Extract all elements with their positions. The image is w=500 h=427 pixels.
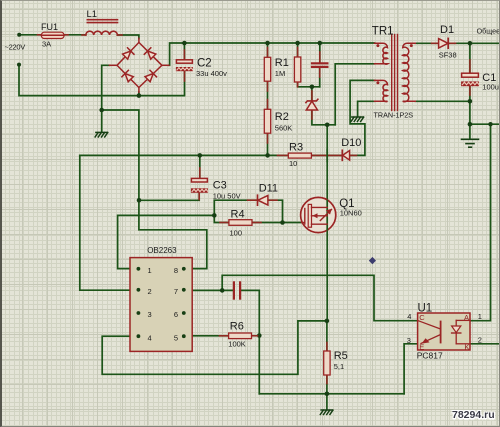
junction gate node B — [280, 220, 285, 225]
capacitor C3 electrolytic — [191, 178, 208, 192]
resistor R1 — [264, 57, 270, 81]
origin marker diamond — [369, 257, 376, 264]
wire: bottom gnd line — [259, 393, 404, 395]
ground symbol at TR1 aux winding — [351, 117, 364, 122]
junction source / R5 top — [325, 319, 330, 324]
wire: pin7 node up and right to opto riser — [222, 275, 417, 320]
wire: snubber cap bottom to clamp node — [319, 68, 321, 86]
junction bridge left gnd node — [99, 108, 104, 113]
wire: C3 top to VCC rail — [199, 155, 201, 178]
wire: chip pin 7 to feedback cap — [184, 289, 233, 291]
wire: chip pin 5 to R6 — [184, 335, 229, 337]
feedback capacitor at pin 7 — [234, 282, 240, 298]
junction pin7 / feedback cap — [220, 288, 225, 293]
junction bridge bottom / AC2 — [137, 93, 142, 98]
wire: output rail to C1 top — [469, 43, 471, 73]
capacitor C1 electrolytic — [461, 73, 479, 86]
wire: secondary top to D1 anode — [415, 42, 438, 44]
junction secondary bottom / C1 — [468, 99, 473, 104]
junction common node — [468, 122, 473, 127]
junction R6 right — [257, 333, 262, 338]
snubber capacitor — [312, 63, 327, 67]
wire: R5 bottom to bottom gnd line — [326, 375, 328, 394]
wire: source node to R5 top — [326, 321, 328, 351]
wire: node A up to D11 cathode — [214, 200, 256, 215]
wire: chip pin 1 to gate network node A — [118, 215, 215, 268]
wire: secondary bottom to C1 bottom node — [415, 100, 470, 102]
wire: zener bottom to drain node — [312, 110, 335, 125]
wire: R5 gnd stub to ground symbol — [326, 394, 328, 410]
wire: D11 anode to gate node B — [268, 200, 283, 222]
wire: C1 node down to common node — [469, 101, 471, 124]
wire: common node to output ground — [469, 124, 471, 138]
wire: bridge bottom vertex to AC2 line — [138, 92, 140, 96]
wire: R3 right to D10 cathode — [311, 154, 341, 156]
resistor R2 — [264, 109, 270, 133]
wire: C2 top plate to rail — [183, 43, 185, 60]
ground symbol at bridge DC- — [95, 132, 108, 137]
wire: common node to right edge — [470, 123, 500, 125]
wire: drain line over R3 pin crossing — [326, 150, 328, 162]
fuse FU1 — [41, 32, 64, 38]
wire: gate node B to Q1 gate — [283, 222, 302, 224]
wire: opto pin A to output common riser — [470, 124, 491, 321]
wire: C3 bottom to gnd rail left — [139, 193, 199, 201]
wire: clamp node to zener top — [311, 87, 313, 100]
junction drain node — [325, 123, 330, 128]
resistor R5 — [324, 351, 330, 375]
junction VCC / R2 / R3 — [265, 153, 270, 158]
wire: D10 anode to aux winding bottom — [350, 80, 375, 155]
wire: terminal L to fuse FU1 — [19, 34, 41, 36]
junction output rail / C1 — [468, 41, 473, 46]
clamp zener diode — [306, 99, 318, 110]
wire: drain node down through Q1 to source node — [326, 125, 328, 321]
resistor R3 — [288, 153, 311, 158]
wire: fuse FU1 to inductor L1 — [64, 34, 86, 36]
resistor R4 — [229, 220, 252, 226]
wire: aux winding bottom to ground — [358, 101, 375, 116]
wire: L1 to bridge top vertex — [117, 35, 139, 39]
MOSFET Q1 — [301, 197, 336, 232]
capacitor C2 electrolytic — [176, 60, 193, 71]
ground symbol at output common — [462, 139, 479, 147]
wire: bridge right vertex to DC+ rail — [169, 43, 375, 65]
diode D1 — [439, 38, 449, 48]
wire: gnd node to vertical x138.9 down to VCC gnd rail — [102, 110, 139, 200]
diode D11 — [258, 195, 268, 205]
bridge diode top-right — [144, 48, 156, 59]
junction rail / snubber R — [295, 41, 300, 46]
terminal ~220V line L — [17, 33, 21, 37]
wire: opto pin K to right edge — [470, 343, 500, 345]
junction VCC / C3 top — [198, 153, 203, 158]
wire: rail to snubber cap top — [319, 43, 321, 62]
wire: VCC rail horizontal — [80, 154, 288, 156]
TR1 secondary winding — [403, 43, 416, 101]
wire: rail to R1 top — [267, 43, 269, 57]
resistor R6 — [229, 333, 252, 339]
wire: gnd rail to chip pin 8 — [139, 200, 207, 268]
wire: node A down to R4 left — [214, 215, 229, 222]
wire: VCC rail down to chip pin 2 — [80, 155, 139, 290]
terminal ~220V line N — [17, 63, 21, 67]
optocoupler U1 — [418, 313, 470, 350]
component pin stubs (red) — [38, 35, 470, 384]
bridge diode bottom-left — [122, 70, 133, 82]
wire: R4 right to gate node B — [252, 222, 283, 224]
TR1 primary winding — [375, 43, 388, 64]
junction rail / R1 — [265, 41, 270, 46]
IC OB2263 pin dots — [137, 267, 186, 338]
wire: gnd node down to ground symbol — [101, 110, 103, 131]
watermark 78294.ru — [452, 409, 495, 421]
wire: terminal N down and right to bridge bottom / C2 bottom — [19, 65, 185, 96]
wire: R2 bottom to VCC node — [267, 133, 269, 155]
wire: D1 cathode to output rail right edge — [449, 42, 500, 44]
junction rail / snubber C — [318, 41, 323, 46]
wire: bridge left vertex to gnd node — [102, 65, 110, 110]
IC OB2263 — [130, 258, 192, 352]
snubber resistor — [294, 57, 300, 82]
wire: snubber resistor bottom to clamp node — [298, 82, 320, 87]
junction R5 bottom / gnd line — [325, 392, 330, 397]
junction common / opto riser — [488, 122, 492, 126]
bridge rectifier diamond — [110, 38, 169, 92]
transformer TR1 — [392, 35, 398, 111]
wire: chip pin 4 to current sense node — [102, 321, 327, 374]
wire: R6 right node down to bottom gnd line — [258, 336, 260, 394]
wire: R1 bottom to R2 top — [267, 81, 269, 109]
wire: C1 bottom lead — [469, 87, 471, 102]
junction gate node A — [212, 213, 217, 218]
TR1 aux winding — [375, 80, 388, 101]
junction gnd rail / C3 bottom — [137, 198, 142, 203]
wire: primary bottom to drain node — [335, 64, 374, 125]
ground symbol below R5 — [320, 410, 333, 415]
wire: feedback cap right to R6 right riser — [242, 290, 260, 335]
junction rail / C2 — [182, 41, 187, 46]
wire: rail to snubber resistor top — [297, 43, 299, 57]
junction clamp node / zener — [310, 85, 315, 90]
bridge diode bottom-right — [145, 70, 157, 82]
diode D10 — [342, 150, 349, 160]
bridge diode top-left — [123, 48, 134, 59]
wire: bottom gnd line up to opto pin E — [404, 344, 418, 394]
inductor L1 — [86, 20, 118, 35]
